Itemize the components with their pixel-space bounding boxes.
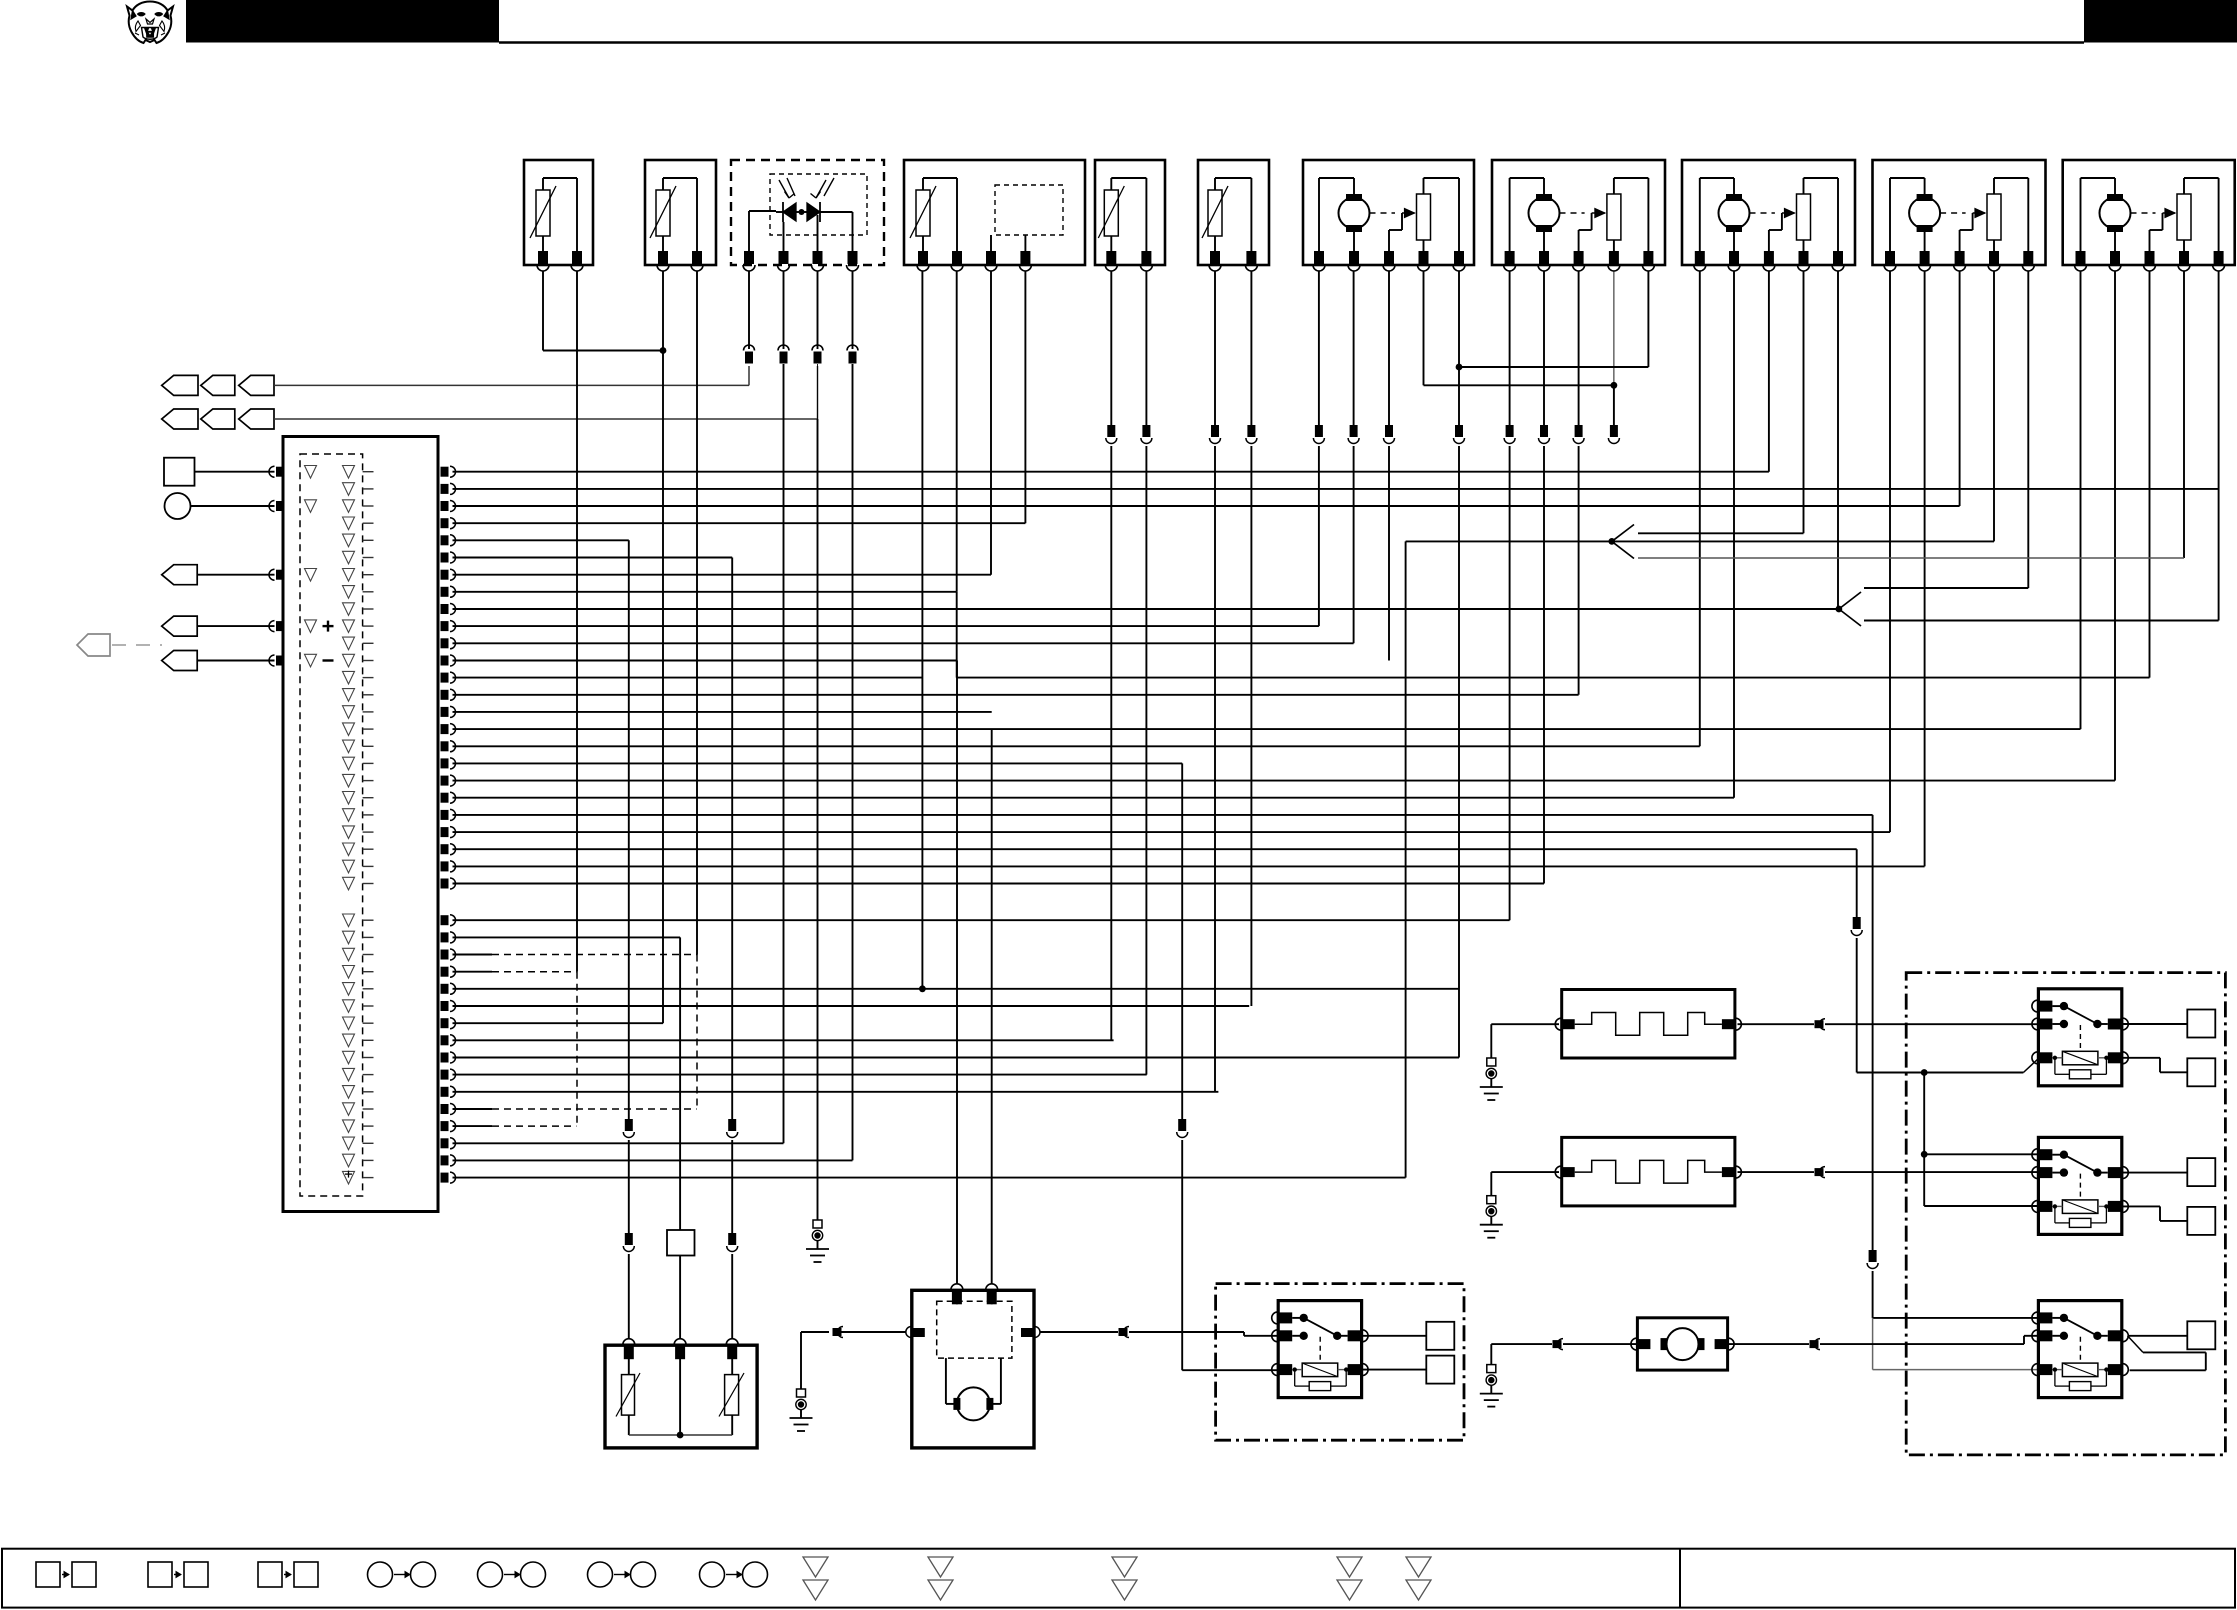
wire M3-4 to bundle1 xyxy=(1803,271,1805,533)
wire M2-2 to pin25 xyxy=(1539,271,1550,884)
wire M1-4 tie xyxy=(1424,271,1618,389)
supply + chevron xyxy=(162,616,275,636)
wire K1 out to connector xyxy=(1362,1335,1427,1337)
servo motor M1 (LH vent) xyxy=(1303,160,1474,271)
wire pin23 drop xyxy=(1851,849,2038,1072)
wire M2-4 drop xyxy=(1608,271,1619,444)
wire M1-1 to pin10 xyxy=(1313,271,1324,626)
wire relay3 coil feed (shield) xyxy=(1873,1318,2039,1370)
data bus wire row1 xyxy=(274,366,749,385)
compressor clutch relay K1 xyxy=(1272,1301,1368,1398)
wire pin41 riser junction xyxy=(1405,1177,1407,1179)
relay module box (dash-dot) xyxy=(1906,973,2225,1455)
ground G2 (blower) xyxy=(790,1389,813,1431)
wire S2-2 (dashed opt) xyxy=(696,955,698,1110)
off-page square K2b xyxy=(2187,1058,2215,1086)
wire K4 out xyxy=(2128,1335,2188,1337)
wire pin18 drop xyxy=(1177,763,1279,1370)
wire K3 out xyxy=(2122,1172,2188,1174)
ECU pins (right, 41) xyxy=(441,466,456,1183)
evaporator sensor w/ amplifier xyxy=(904,160,1085,271)
off-page square K3a xyxy=(2187,1158,2215,1186)
wire M3-2 to pin20 xyxy=(1733,271,1735,798)
connector on solar pin 4 xyxy=(847,271,858,364)
wire K3 coil out xyxy=(2122,1206,2188,1221)
off-page square K4a xyxy=(2187,1321,2215,1349)
off-page square K1a xyxy=(1426,1322,1454,1350)
fan relay K4 xyxy=(2032,1301,2128,1398)
pin triangles (right column) xyxy=(343,466,374,1185)
wire S1-2 (dashed opt) xyxy=(576,972,578,1126)
supply - chevron xyxy=(162,651,275,671)
legend strip xyxy=(2,1549,2235,1608)
fan relay K2 xyxy=(2032,989,2128,1086)
jaguar growler logo xyxy=(127,2,173,44)
fan relay K3 xyxy=(2032,1137,2128,1234)
wire M5-3 to pin13 xyxy=(2149,271,2151,678)
row9 wire to bundle2 xyxy=(453,608,1839,610)
wire evap-4 to pin4 xyxy=(1024,271,1026,523)
wire M5-1 to pin16 xyxy=(2080,271,2082,729)
pin triangle plus mark xyxy=(345,1171,352,1178)
servo motor M5 (temp blend) xyxy=(2063,160,2235,271)
evaporator fan speed sensor xyxy=(1555,990,1741,1059)
connector on solar pin 3 xyxy=(812,271,823,364)
wire M2-1 to pin26 xyxy=(1504,271,1515,920)
wire K2 coil out xyxy=(2122,1058,2188,1073)
temp sensor S4 xyxy=(1198,160,1269,271)
display connector (square) xyxy=(164,458,275,486)
pin triangles (left column) xyxy=(305,466,334,667)
wire M3-1 to pin17 xyxy=(1699,271,1701,746)
wire pin8 jog to M5-3 xyxy=(957,592,2150,678)
header title bar xyxy=(186,0,499,43)
input connector chevron xyxy=(162,565,275,585)
off-page square K2a xyxy=(2187,1010,2215,1038)
wire S1-2 (solid) xyxy=(576,271,578,972)
wire speed2 right xyxy=(1738,1167,2039,1178)
wire M5-5 to bundle2/pin2 xyxy=(2218,271,2220,621)
wire M4-1 to pin22 xyxy=(1889,271,1891,832)
in-line resistor pack xyxy=(667,1230,695,1256)
wire S4-1 to pin36 xyxy=(1210,271,1221,1092)
wire M6 right xyxy=(1728,1336,2038,1350)
wire S2-2 (solid) xyxy=(696,271,698,955)
row38 wire (dashed option) xyxy=(453,1125,577,1127)
connector on solar pin 2 xyxy=(778,271,789,364)
off-page square K3b xyxy=(2187,1207,2215,1235)
bundle arrow B1 xyxy=(1406,525,2184,559)
wire M1-3 to pin12 xyxy=(1384,271,1395,661)
servo motor M3 (defrost) xyxy=(1682,160,1855,271)
wire solar-2 to pin39 xyxy=(783,364,785,1143)
off-page square K1b xyxy=(1426,1356,1454,1384)
ground G3 xyxy=(1480,1058,1503,1100)
connector on solar pin 1 xyxy=(744,271,755,364)
wire K4 feedback loop xyxy=(2128,1336,2206,1371)
wire M4-5 to bundle2 xyxy=(2027,271,2029,588)
wire M2-3 to pin14 xyxy=(1573,271,1584,695)
wire pin16 drop to blower xyxy=(991,729,993,1284)
ground G1 (solar sensor shield) xyxy=(806,1220,829,1262)
wire M1-2 to pin11 xyxy=(1348,271,1359,643)
node tie to ECU pin32 xyxy=(662,351,664,1024)
wire relay3 switch feed xyxy=(1873,1317,2039,1319)
wire M3-3 to pin1 xyxy=(1768,271,1770,472)
servo motor M2 (RH vent) xyxy=(1492,160,1665,271)
wire M3-5 to bundle2 tip xyxy=(1837,271,1839,609)
evaporator temp sensors box xyxy=(605,1339,757,1448)
wire S3-2 to pin35 xyxy=(1141,271,1152,1075)
wire M2-5 stub xyxy=(1647,271,1649,367)
wire solar-4 to pin40 xyxy=(852,364,854,1160)
wire speed1 left xyxy=(1491,1024,1559,1058)
row28 wire (dashed option) xyxy=(453,954,697,956)
A/C compressor module (dash-dot) xyxy=(1216,1284,1464,1441)
wire S4-2 to pin31 xyxy=(1246,271,1257,1006)
wire evap-2 to pin8 xyxy=(956,271,958,592)
wire K1 coil out xyxy=(1362,1369,1427,1371)
wire K2 out xyxy=(2122,1023,2188,1025)
wire S3-1 to pin33 xyxy=(1106,271,1117,1040)
data bus chevrons row2 xyxy=(162,409,274,429)
wire S2-1 drop xyxy=(662,271,664,351)
wire S1-1 / S2-1 tie xyxy=(543,271,666,354)
temp sensor S1 (in-car) xyxy=(524,160,593,271)
wire M4-3 to pin3 xyxy=(1959,271,1961,506)
wire relay2 switch feed xyxy=(1921,1151,2039,1158)
wire pin6 drop xyxy=(727,558,738,1340)
wire pin21 drop xyxy=(1867,815,1878,1318)
wire pin12 drop to blower xyxy=(956,661,958,1285)
row29 wire (dashed option) xyxy=(453,971,577,973)
ground G4 xyxy=(1480,1196,1503,1238)
wire speed1 right xyxy=(1738,1019,2039,1030)
wire M5-2 to pin19 xyxy=(2114,271,2116,781)
ECU pins (left, 5) xyxy=(269,466,284,666)
wire evap-3 to pin7 xyxy=(990,271,992,575)
aspirator motor M6 xyxy=(1631,1318,1734,1370)
ECU pin row wires xyxy=(453,472,2219,1178)
data bus wire row2 xyxy=(274,366,818,419)
bundle arrow B2 xyxy=(1836,588,2219,626)
wire blower left to ground xyxy=(801,1327,906,1390)
solar load sensor xyxy=(731,160,884,271)
header page box xyxy=(2084,0,2237,43)
wire solar-3 ground branch xyxy=(817,364,819,1220)
wire M6 left xyxy=(1491,1339,1637,1365)
servo motor M4 (foot) xyxy=(1873,160,2046,271)
wire speed2 left xyxy=(1491,1172,1559,1196)
off-page chevron (grey) xyxy=(77,634,162,656)
wire resistor to sensor box xyxy=(679,1256,681,1340)
wire relay2 coil feed xyxy=(1921,1069,2039,1206)
row37 wire (dashed option) xyxy=(453,1108,697,1110)
data bus chevrons row1 xyxy=(162,375,274,395)
wire M1-5 drop xyxy=(1454,367,1465,1058)
temp sensor S2 (ambient) xyxy=(645,160,716,271)
header rule xyxy=(499,41,2084,44)
A/C control module U1 xyxy=(283,437,438,1212)
condenser fan speed sensor xyxy=(1555,1137,1741,1206)
wire B1 riser xyxy=(1405,541,1407,1177)
wire blower feed to relay xyxy=(1040,1327,1279,1338)
wire pin5 drop xyxy=(623,540,634,1339)
wire M5-4 to bundle1 xyxy=(2183,271,2185,558)
ground G5 xyxy=(1480,1365,1503,1407)
sensor aspirator (circle) xyxy=(165,493,275,519)
wire M4-2 to pin24 xyxy=(1924,271,1926,866)
wire pin27 drop xyxy=(679,937,681,1230)
wire M1-5 tie xyxy=(1456,271,1649,370)
blower motor assembly xyxy=(906,1284,1040,1448)
wire M4-4 to bundle1 xyxy=(1993,271,1995,541)
temp sensor S3 xyxy=(1095,160,1165,271)
wire evap-1 to pin30 xyxy=(919,271,926,992)
